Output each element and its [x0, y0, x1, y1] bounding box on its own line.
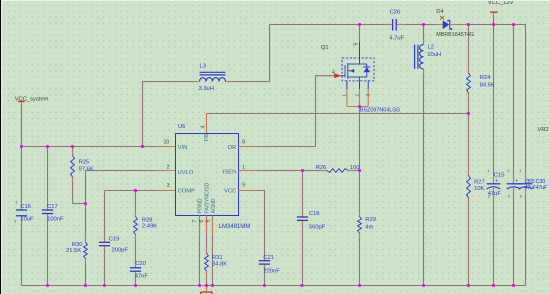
svg-text:1: 1	[15, 200, 17, 204]
svg-text:6: 6	[199, 220, 205, 223]
svg-text:C20: C20	[135, 261, 146, 267]
svg-text:84.5K: 84.5K	[480, 83, 495, 89]
svg-text:VCC: VCC	[224, 188, 236, 194]
svg-text:9: 9	[242, 183, 245, 189]
svg-text:2: 2	[508, 195, 510, 199]
svg-text:L2: L2	[428, 44, 434, 50]
svg-text:UVLO: UVLO	[178, 170, 194, 176]
svg-text:8: 8	[242, 140, 245, 146]
svg-text:2: 2	[520, 195, 522, 199]
svg-text:BSZ097N04LSG: BSZ097N04LSG	[360, 108, 400, 114]
svg-text:COMP: COMP	[178, 188, 196, 194]
svg-text:L3: L3	[200, 63, 206, 69]
svg-text:2.49K: 2.49K	[142, 223, 157, 229]
svg-text:+: +	[495, 179, 498, 185]
svg-text:4: 4	[201, 125, 207, 128]
svg-text:PGND: PGND	[198, 198, 204, 213]
svg-text:7: 7	[192, 220, 198, 223]
svg-text:VCC_system: VCC_system	[15, 97, 49, 103]
svg-text:R27: R27	[474, 179, 485, 185]
svg-text:C18: C18	[309, 211, 320, 217]
svg-text:C16: C16	[20, 204, 31, 210]
svg-text:560pF: 560pF	[309, 225, 326, 231]
svg-text:Q1: Q1	[321, 45, 329, 51]
svg-text:4m: 4m	[365, 224, 373, 230]
svg-text:47nF: 47nF	[135, 273, 149, 279]
svg-text:R26: R26	[316, 165, 327, 171]
svg-text:2: 2	[14, 219, 16, 223]
svg-text:2: 2	[488, 195, 490, 199]
svg-text:U6: U6	[178, 124, 185, 130]
svg-text:2: 2	[167, 164, 170, 170]
svg-text:MBRB1645T4G: MBRB1645T4G	[436, 32, 474, 38]
svg-text:47uF47uF: 47uF47uF	[525, 185, 549, 191]
svg-text:FB: FB	[204, 134, 210, 142]
svg-text:R29: R29	[365, 217, 376, 223]
svg-text:C19: C19	[109, 237, 120, 243]
svg-text:LM3481MM: LM3481MM	[219, 224, 251, 230]
svg-text:VR2: VR2	[538, 127, 549, 133]
svg-text:C21: C21	[263, 255, 274, 261]
svg-text:10uH: 10uH	[427, 52, 441, 58]
svg-text:C26: C26	[390, 9, 401, 15]
svg-text:ISEN: ISEN	[223, 170, 237, 176]
svg-text:+: +	[515, 179, 518, 185]
svg-text:R24: R24	[480, 75, 491, 81]
svg-text:200pF: 200pF	[112, 248, 129, 254]
svg-text:VCC_12V: VCC_12V	[488, 0, 514, 6]
svg-text:34.8K: 34.8K	[212, 262, 227, 268]
svg-text:10uF: 10uF	[20, 217, 34, 223]
svg-text:21.5K: 21.5K	[66, 248, 81, 254]
svg-text:100: 100	[350, 165, 360, 171]
svg-text:C17: C17	[47, 204, 58, 210]
svg-text:5: 5	[205, 220, 211, 223]
svg-text:D4: D4	[436, 9, 444, 15]
svg-text:C15: C15	[494, 173, 505, 179]
svg-text:3: 3	[167, 183, 170, 189]
svg-text:4.7uF: 4.7uF	[389, 35, 404, 41]
svg-text:220nF: 220nF	[263, 269, 280, 275]
svg-text:4: 4	[332, 70, 335, 76]
svg-text:1: 1	[507, 169, 509, 173]
svg-text:1: 1	[242, 164, 245, 170]
svg-text:1: 1	[519, 169, 521, 173]
svg-text:97.6K: 97.6K	[79, 166, 94, 172]
svg-text:R25: R25	[79, 159, 90, 165]
svg-text:VIN: VIN	[178, 145, 188, 151]
svg-text:5: 5	[354, 43, 360, 46]
svg-text:1: 1	[487, 169, 489, 173]
svg-text:R31: R31	[212, 255, 223, 261]
svg-text:10K: 10K	[474, 186, 484, 192]
svg-text:AGND: AGND	[211, 198, 217, 213]
svg-text:DR: DR	[228, 145, 236, 151]
svg-text:3.3uH: 3.3uH	[199, 86, 214, 92]
svg-text:FA/SYNC/SD: FA/SYNC/SD	[204, 182, 210, 213]
svg-text:10: 10	[164, 140, 170, 146]
svg-text:100nF: 100nF	[47, 217, 64, 223]
